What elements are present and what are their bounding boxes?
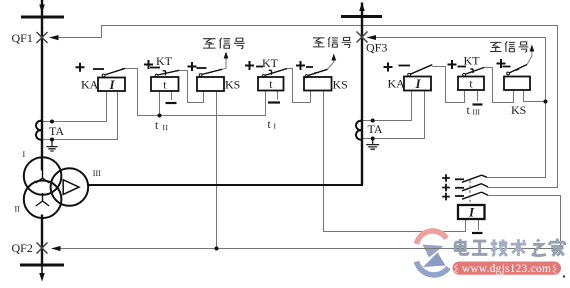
arrow down into busbar1: [39, 5, 45, 14]
wire TA2 secondary top: [363, 91, 412, 121]
polarity marks: [76, 59, 506, 200]
minus KS2: [306, 66, 313, 68]
plus KT2: [245, 61, 254, 70]
junction TA1 secondary bottom: [50, 138, 54, 142]
svg-text:II: II: [15, 204, 21, 213]
svg-text:I: I: [414, 76, 421, 91]
plus KA2: [384, 63, 393, 72]
wire QF3 trip loop: [369, 38, 546, 178]
delta symbol winding III: [63, 180, 79, 195]
minus KS3: [503, 66, 511, 68]
plus KS2: [296, 61, 305, 70]
text to-signal 1: [203, 38, 245, 49]
feeder line 1 lower (to QF2 busbar): [41, 215, 43, 266]
box value labels: [108, 76, 475, 219]
wire TA1 secondary bottom: [43, 91, 118, 140]
junction TA2 secondary bottom: [371, 137, 375, 141]
wire KT2 contact to KS2 coil: [287, 69, 311, 103]
wire KS1 pin down to QF2 trip: [216, 91, 218, 249]
junction KT1 coil on bus: [158, 114, 162, 118]
pivot contact KS2: [305, 75, 308, 78]
wire relay U1 right pin: [478, 219, 480, 231]
arrow to signal 1: [224, 52, 229, 59]
watermark: [413, 231, 565, 278]
arrow at QF2 X: [51, 246, 61, 251]
junction TA2 secondary top: [371, 119, 375, 123]
svg-text:QF3: QF3: [366, 41, 387, 55]
relay KT1 box: [151, 77, 179, 91]
pivot contact KT1: [155, 74, 158, 77]
breaker X symbols: [37, 32, 368, 254]
plus row2: [442, 184, 450, 192]
wye symbol winding II: [36, 193, 49, 206]
svg-text:KS: KS: [511, 103, 526, 117]
text to-signal 3: [490, 41, 528, 52]
contact KT2: [265, 69, 288, 76]
busbar 3 (QF3): [341, 15, 382, 18]
wire signal arrow 2: [328, 60, 334, 70]
pivot contact KS3: [507, 72, 510, 75]
wire KT1 left pin: [159, 91, 161, 116]
svg-text:KT: KT: [156, 54, 173, 68]
svg-text:KT: KT: [262, 56, 279, 70]
svg-text:QF1: QF1: [12, 31, 33, 45]
svg-text:KA: KA: [388, 77, 406, 91]
wire signal arrow 3: [527, 51, 532, 65]
minus KA2: [399, 65, 411, 67]
junction KS1 on QF2 trip line: [215, 247, 219, 251]
minus rail KT1: [166, 102, 177, 104]
relay KS1 box: [197, 77, 224, 91]
contact KS3: [509, 65, 527, 74]
minus row1: [455, 178, 464, 180]
pivot contact KA1: [102, 74, 105, 77]
relay KT3 box: [458, 77, 484, 91]
wire QF1 trip loop: [50, 26, 558, 188]
wire KT1 contact to KS1 coil: [179, 71, 203, 103]
minus row2: [455, 187, 464, 189]
watermark site name 电工技术之家: [455, 239, 565, 257]
contact KS1: [202, 69, 223, 74]
minus KS1: [197, 67, 207, 69]
svg-text:I: I: [108, 77, 115, 92]
plus KT3: [448, 60, 457, 69]
wire KS3 pin to QF3 trip bus: [524, 91, 546, 102]
wire QF2 trip line: [52, 196, 561, 249]
wire KT1 right pin: [171, 91, 173, 100]
svg-text:KS: KS: [225, 78, 240, 92]
ground TA1: [46, 140, 57, 152]
plus KS1: [188, 62, 197, 71]
minus KT3: [458, 66, 467, 68]
busbar 2 (bottom): [20, 264, 64, 267]
plus KT1: [144, 60, 153, 69]
feeder line 1 (QF1 branch): [41, 0, 43, 171]
contact KS2: [308, 69, 328, 75]
svg-text:KA: KA: [81, 78, 99, 92]
svg-text:KS: KS: [333, 78, 348, 92]
watermark url pill: [453, 262, 562, 275]
ground TA2: [366, 139, 379, 150]
linkage dashed line of relay U1: [469, 181, 471, 206]
transformer T winding III: [51, 168, 89, 206]
wire KA1 contact to timing bus: [122, 69, 266, 116]
wire QF2 trip line over logo: [413, 248, 452, 250]
svg-text:TA: TA: [368, 122, 383, 136]
arrow at QF1 X: [49, 35, 59, 40]
svg-text:KT: KT: [464, 53, 481, 67]
pivot contact KA2: [408, 73, 411, 76]
wire KA2 contact to KT3: [432, 67, 464, 103]
plus KS3: [497, 59, 506, 68]
gas relay contact row 3: [462, 192, 488, 199]
text to-signal 2: [313, 37, 351, 48]
wire TA2 secondary bottom: [363, 91, 425, 139]
contact KT3: [465, 67, 484, 74]
relay KS2 box: [304, 77, 332, 91]
wire KT3 right pin: [477, 91, 479, 102]
current transformer TA2: [356, 121, 362, 140]
relay KA1 box: [98, 78, 125, 92]
breaker QF3: [357, 32, 368, 43]
minus rail KT3: [473, 103, 483, 105]
svg-text:II: II: [163, 123, 169, 132]
breaker QF2: [37, 243, 48, 254]
svg-text:III: III: [93, 169, 101, 178]
junction TA1 secondary top: [50, 120, 54, 124]
feeder arrow stem below busbar 2: [41, 265, 43, 276]
plus KA1: [76, 63, 85, 72]
relay KS3 box: [504, 77, 530, 91]
wire TA1 secondary top: [43, 91, 107, 122]
wire KT3 contact to KS3 coil: [484, 68, 513, 103]
gas relay contact row 1: [462, 175, 487, 182]
arrow at QF3 X: [366, 35, 376, 40]
winding III feeder line: [89, 184, 364, 186]
junction KS3 on QF3 trip bus: [544, 100, 548, 104]
svg-text:I: I: [468, 205, 475, 220]
wire KT2 right pin: [277, 91, 279, 100]
plus row3: [442, 193, 450, 201]
transformer T winding II: [24, 181, 62, 219]
relay KA2 box: [404, 77, 431, 91]
svg-text:I: I: [23, 150, 26, 159]
breaker QF1: [37, 32, 48, 43]
minus rail KT2: [268, 101, 280, 103]
feeder line 2 (QF3 branch): [361, 3, 363, 186]
contact KA1: [105, 68, 126, 75]
watermark logo: [417, 231, 449, 275]
minus KT2: [256, 66, 263, 68]
contact KA2: [410, 65, 432, 75]
pivot contact KT3: [463, 73, 466, 76]
arrow to signal 2: [331, 54, 336, 61]
busbar 1: [21, 16, 64, 19]
arrow up from busbar3: [359, 3, 365, 12]
svg-text:QF2: QF2: [12, 241, 33, 255]
contact KT1: [158, 70, 180, 75]
minus KT1: [150, 67, 160, 69]
minus row3: [455, 195, 464, 197]
gas relay contact row 2: [462, 184, 488, 191]
svg-text:TA: TA: [49, 124, 64, 138]
relay U1 box: [458, 205, 485, 219]
arrow down below busbar2: [39, 273, 45, 282]
wye symbol winding I: [36, 170, 49, 183]
current transformer TA1: [36, 121, 42, 140]
pivot contact KT2: [262, 75, 265, 78]
minus rail U1: [472, 232, 483, 234]
wire signal arrow 1: [222, 58, 226, 70]
pivot contact KS1: [199, 74, 202, 77]
plus row1: [442, 174, 450, 182]
svg-text:III: III: [473, 108, 481, 117]
svg-text:www.dgjs123.com: www.dgjs123.com: [462, 263, 551, 275]
minus KA1: [93, 68, 104, 70]
wire KS2 pin down to relay U1: [324, 91, 466, 232]
transformer T winding I: [24, 157, 62, 195]
relay KT2 box: [258, 77, 284, 91]
arrow to signal 3: [530, 45, 535, 52]
